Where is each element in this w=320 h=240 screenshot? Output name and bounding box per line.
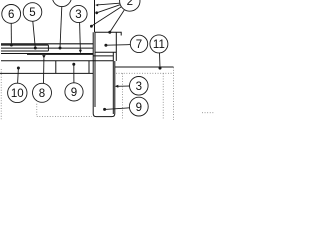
svg-text:3: 3 bbox=[75, 9, 81, 21]
leader 2 fan line 4 bbox=[110, 10, 124, 32]
circle 9 left bbox=[65, 83, 83, 101]
leader 8 with arrowhead bbox=[43, 58, 45, 83]
circle 3 top bbox=[70, 5, 87, 22]
panel line C bbox=[1, 47, 93, 49]
panel bottom line H bbox=[1, 60, 113, 62]
svg-text:2: 2 bbox=[127, 0, 133, 8]
circle 7 bbox=[130, 35, 147, 52]
leader 2 fan line 2 bbox=[97, 5, 120, 13]
post right outer wall upper bbox=[115, 32, 117, 61]
glass end vertical bbox=[47, 45, 49, 51]
right stub line bbox=[115, 66, 174, 68]
leader 11 bbox=[159, 53, 162, 68]
panel line E2 bbox=[27, 53, 93, 55]
leader cut circle bbox=[60, 7, 62, 48]
dotted bottom right piece bbox=[202, 112, 215, 114]
mullion vertical below H bbox=[55, 61, 57, 73]
callout circles bbox=[2, 0, 168, 116]
svg-text:8: 8 bbox=[39, 88, 45, 100]
panel line D bbox=[1, 50, 48, 52]
dashed vertical right bbox=[173, 67, 175, 120]
dotted rect right bbox=[162, 73, 164, 120]
box bottom bbox=[95, 51, 116, 53]
leader 9 bottom bbox=[105, 108, 130, 110]
under-box line bbox=[93, 55, 113, 57]
circle 2 bbox=[120, 0, 140, 11]
leader 3 bottom with arrowhead bbox=[116, 85, 129, 87]
circle 9 bottom bbox=[129, 97, 148, 116]
svg-text:10: 10 bbox=[11, 88, 24, 100]
svg-text:6: 6 bbox=[8, 9, 14, 21]
dotted segment below 8 vertical bbox=[36, 104, 38, 117]
post left outer wall bbox=[93, 32, 115, 116]
circle 6 bbox=[2, 5, 21, 24]
post cap bbox=[95, 32, 122, 35]
post top rod bbox=[94, 0, 96, 32]
leader 5 bbox=[33, 21, 36, 48]
panel line E1 bbox=[1, 53, 93, 55]
post right inner wall bbox=[112, 52, 114, 114]
svg-text:5: 5 bbox=[29, 7, 35, 19]
dotted left border bbox=[0, 69, 2, 120]
circle 3 bottom bbox=[130, 77, 149, 96]
leader 9 left bbox=[73, 64, 75, 83]
svg-text:9: 9 bbox=[71, 87, 77, 99]
leader lines bbox=[10, 3, 162, 111]
dotted bottom horizontal bbox=[37, 115, 92, 117]
circle 8 bbox=[33, 83, 52, 102]
leader 6 bbox=[10, 23, 12, 45]
leader 3 top with arrowhead bbox=[79, 23, 82, 52]
circle 10 bbox=[8, 83, 27, 102]
post left inner wall bbox=[94, 32, 96, 107]
dotted boundary lines bbox=[1, 67, 215, 120]
leader 2 fan line 1 bbox=[99, 3, 120, 5]
leader 10 bbox=[17, 68, 20, 83]
svg-text:11: 11 bbox=[153, 39, 165, 51]
lower profile line I bbox=[0, 72, 93, 74]
circle 5 bbox=[23, 3, 42, 22]
circle 11 bbox=[150, 35, 168, 53]
panel line B bbox=[1, 44, 48, 46]
labels bbox=[8, 0, 165, 114]
leader 7 bbox=[106, 44, 130, 47]
dotted rect left bbox=[121, 73, 123, 120]
svg-text:9: 9 bbox=[136, 102, 142, 114]
svg-text:3: 3 bbox=[136, 81, 142, 93]
panel line A top bbox=[1, 43, 93, 45]
circle cut top bbox=[52, 0, 71, 7]
dotted rect top bbox=[116, 72, 174, 74]
svg-text:7: 7 bbox=[136, 39, 142, 51]
mullion vertical below H right bbox=[88, 61, 90, 73]
leader 2 fan line 3 bbox=[92, 7, 122, 26]
